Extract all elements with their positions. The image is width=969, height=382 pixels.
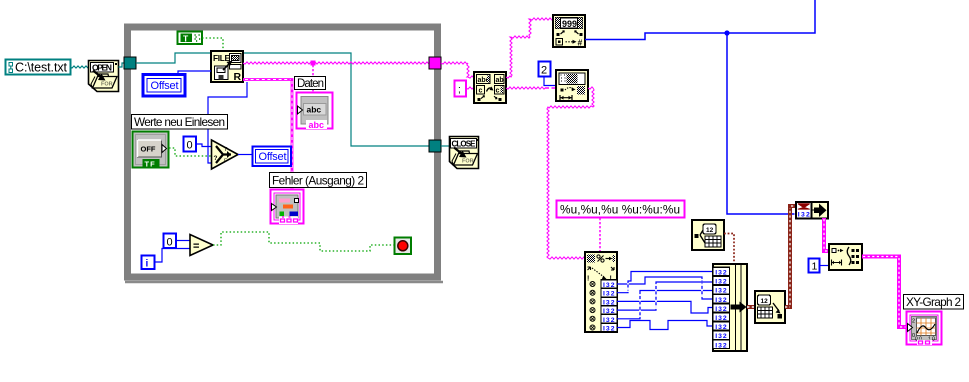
wire: Read File to close tunnel (243, 53, 429, 146)
wire: Offset control to Read File (178, 71, 211, 74)
wire: Search and Replace to Decimal String To Number (506, 18, 553, 78)
svg-text:ab: ab (496, 77, 504, 84)
wire: String Subset to Scan From String (547, 87, 594, 259)
svg-text:I32: I32 (715, 279, 727, 286)
label: Werte neu Einlesen (132, 115, 228, 130)
wire: scan row5 to bundle row3 (617, 291, 713, 319)
wire: Open File to loop tunnel (119, 63, 126, 67)
wire: scan row4 to bundle row2 (617, 282, 713, 310)
wire: i to Equal node (155, 249, 191, 263)
svg-text:FILE: FILE (213, 53, 230, 63)
Select node (212, 140, 239, 169)
wire: scan row1 to bundle row4 (617, 277, 713, 299)
svg-text:0: 0 (167, 237, 173, 249)
svg-text:c: c (496, 88, 500, 95)
wire: tunnel to Read File refnum (136, 53, 211, 63)
Date/Time To Seconds node (755, 291, 785, 323)
svg-text:I32: I32 (715, 333, 727, 340)
svg-text:TF: TF (145, 160, 156, 169)
svg-text:!: ! (587, 276, 589, 283)
wire: scan row2 to bundle row1 (617, 272, 713, 293)
control: Werte neu Einlesen OFF button (133, 132, 169, 169)
wire: Bundle to Date/Time To Seconds (747, 305, 755, 309)
numeric constant 2 (539, 62, 551, 77)
tunnel: string data out (429, 57, 441, 69)
svg-text:I32: I32 (715, 306, 727, 313)
Search and Replace String node (474, 72, 506, 103)
svg-text:2: 2 (912, 319, 915, 325)
wire: Read File offset out to Select (208, 82, 247, 163)
svg-text:0: 0 (187, 140, 193, 152)
wire: 2 constant to String Subset (544, 77, 556, 86)
tunnel: file refnum out (429, 140, 441, 152)
numeric constant 0 (184, 137, 197, 152)
svg-text:I32: I32 (715, 288, 727, 295)
svg-text:OFF: OFF (141, 145, 156, 154)
Equal? node (190, 235, 213, 256)
wire: 0 to Equal node (176, 240, 190, 242)
svg-text:abc: abc (307, 105, 322, 115)
wire: date/time cluster to Bundle (724, 234, 734, 265)
wire: string branch to Daten (312, 65, 314, 92)
indicator: Fehler (Ausgang) 2 (271, 190, 304, 225)
svg-text:1: 1 (812, 261, 818, 273)
svg-text:I32: I32 (715, 324, 727, 331)
wire: Read File error out to Fehler (243, 80, 292, 191)
svg-text:12: 12 (706, 227, 714, 234)
svg-text:c: c (479, 88, 483, 95)
wire: TRUE constant to Read File (202, 38, 223, 51)
svg-text:abc: abc (309, 120, 325, 130)
svg-text:?: ? (214, 155, 218, 162)
wire: OFF button to Select (169, 148, 212, 156)
svg-text:I32: I32 (715, 297, 727, 304)
wire: cluster array to XY-Graph 2 (862, 257, 906, 328)
wire: seconds to I32 conversion (785, 206, 796, 307)
Read File node (211, 51, 243, 83)
svg-text:I32: I32 (603, 326, 615, 333)
svg-text:FOR: FOR (462, 159, 474, 165)
indicator: Daten string (297, 93, 333, 131)
wire: Search and Replace to String Subset (506, 87, 556, 89)
Seconds To Date/Time node (692, 220, 724, 250)
junction: number wire branch (724, 30, 729, 35)
wire: file path to Open File (70, 66, 88, 68)
svg-text:R: R (234, 71, 242, 83)
Array To Cluster node (829, 244, 862, 270)
To Long Integer and Build Array node (796, 202, 828, 219)
svg-text:=: = (193, 241, 199, 253)
wire crossing dashes (628, 279, 702, 317)
wire: Select to Offset indicator (238, 154, 252, 156)
label: Daten (295, 77, 326, 91)
wire: tunnel to Close File (441, 145, 449, 147)
indicator: Offset (253, 147, 292, 167)
svg-text:%u,%u,%u %u:%u:%u: %u,%u,%u %u:%u:%u (560, 203, 680, 217)
Decimal String To Number node (553, 15, 585, 48)
boolean constant TRUE (178, 32, 203, 45)
svg-text:I32: I32 (715, 270, 727, 277)
junction: string wire branch (311, 61, 316, 66)
wire: number out long run (585, 0, 815, 214)
path constant C:\test.txt (6, 60, 71, 75)
svg-text:I32: I32 (715, 315, 727, 322)
indicator: XY-Graph 2 (907, 312, 942, 346)
wire: string tunnel to Search and Replace String (441, 62, 474, 78)
wire: format string to Scan From String (599, 218, 601, 252)
svg-text:Fehler (Ausgang) 2: Fehler (Ausgang) 2 (272, 174, 364, 188)
Bundle node (713, 264, 747, 351)
while loop frame (125, 27, 443, 282)
wire: scan row3 to bundle row5 (617, 301, 713, 313)
Scan From String node (585, 252, 617, 333)
svg-text:T: T (183, 34, 189, 44)
wire: semicolon constant to node (466, 87, 474, 89)
label: Fehler (Ausgang) 2 (270, 173, 367, 188)
svg-text:I32: I32 (715, 342, 727, 349)
wire: scan row6 to bundle row7 (617, 321, 713, 330)
wire: 0 constant to Select (196, 144, 212, 147)
svg-text:#: # (578, 38, 583, 48)
svg-text:C:\test.txt: C:\test.txt (15, 61, 68, 75)
svg-text:XY-Graph 2: XY-Graph 2 (906, 295, 961, 309)
loop condition terminal (395, 238, 412, 255)
svg-text:;: ; (458, 85, 461, 96)
svg-text:I32: I32 (798, 212, 810, 219)
iteration terminal i (142, 256, 155, 270)
numeric constant 1 (809, 259, 820, 273)
tunnel: file refnum in (124, 57, 136, 69)
svg-text:Offset: Offset (259, 151, 287, 163)
numeric constant 0 (compare) (164, 234, 177, 249)
svg-text:Werte neu Einlesen: Werte neu Einlesen (134, 115, 225, 129)
wire: Equal to loop condition (213, 232, 395, 251)
svg-text:Daten: Daten (297, 78, 324, 90)
label: XY-Graph 2 (904, 295, 964, 310)
svg-text:i: i (146, 259, 149, 270)
svg-text:12: 12 (761, 298, 769, 305)
svg-text:FOR: FOR (101, 82, 113, 88)
svg-text:Offset: Offset (151, 80, 179, 92)
svg-text:999: 999 (562, 19, 577, 29)
Open File node (89, 61, 119, 92)
Close File node (450, 137, 479, 169)
string constant semicolon (455, 81, 467, 97)
string constant %u format (557, 201, 685, 218)
String Subset node (556, 70, 588, 101)
svg-text:2: 2 (541, 65, 547, 77)
wire: 1 constant to node (820, 265, 830, 267)
control: Offset (143, 75, 185, 97)
wire: Read File data to output tunnel (243, 62, 433, 64)
wire: array to Build XY cluster (824, 218, 829, 251)
